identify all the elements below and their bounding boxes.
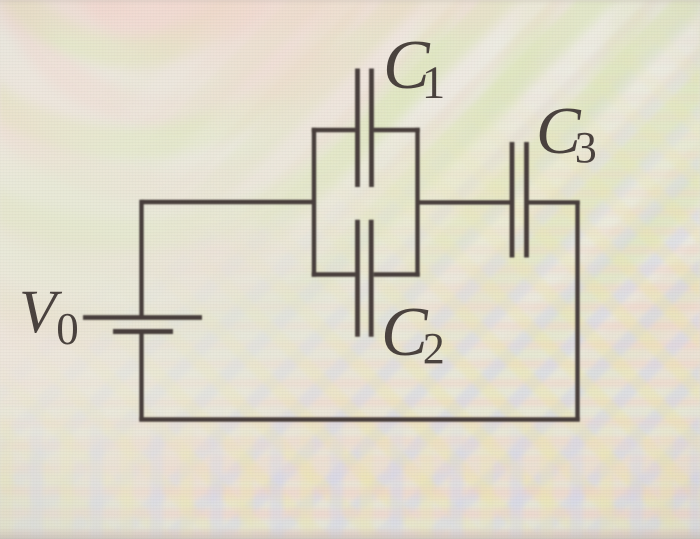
parallel box top edge left piece [312, 128, 356, 132]
wire top rail middle segment (box to C3) [418, 200, 513, 204]
battery V0 long positive plate [83, 315, 202, 320]
label C1 [383, 26, 445, 106]
wire left branch upper (top rail down to battery) [139, 200, 143, 318]
capacitor C2 right plate [369, 220, 374, 337]
capacitor C3 right plate [524, 142, 529, 258]
capacitor C3 left plate [510, 142, 515, 258]
wire top rail right segment (C3 to right branch) [527, 200, 580, 204]
wire left branch lower (battery down to bottom rail) [139, 332, 143, 420]
capacitor C2 left plate [355, 220, 360, 337]
wire top rail left segment (node A to parallel box) [142, 200, 315, 204]
wire bottom rail [139, 417, 580, 421]
parallel box right edge [415, 128, 419, 277]
parallel box top edge right piece [374, 128, 420, 132]
parallel box left edge [312, 128, 316, 277]
label V0 [19, 278, 79, 348]
battery V0 short negative plate [113, 329, 173, 334]
parallel box bottom edge left piece [312, 272, 356, 276]
label C2 [381, 293, 445, 373]
capacitor C1 left plate [355, 69, 360, 188]
capacitor C1 right plate [369, 69, 374, 188]
wire right branch (C3 down to bottom rail) [575, 202, 579, 420]
label C3 [536, 93, 597, 170]
parallel box bottom edge right piece [374, 272, 420, 276]
